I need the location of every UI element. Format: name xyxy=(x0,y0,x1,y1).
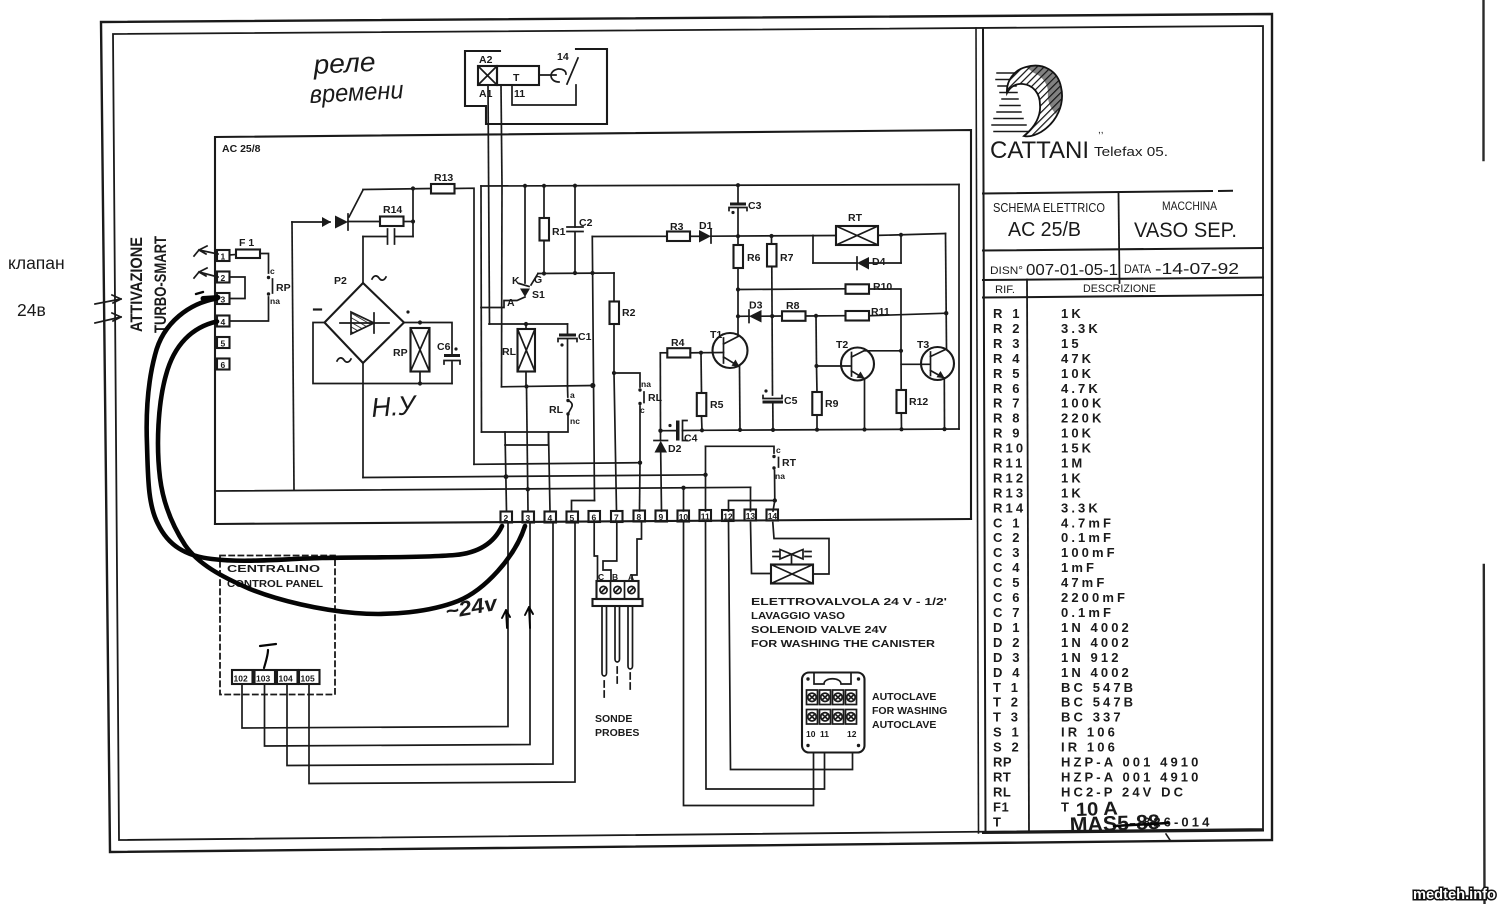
top rail of inner box xyxy=(481,185,959,187)
bridge inner diode axis xyxy=(340,322,389,324)
inner contour xyxy=(814,673,851,685)
pin 13 riser from line B xyxy=(750,487,752,511)
S1 triangle xyxy=(520,289,530,298)
thick blob at pin3 xyxy=(203,298,218,299)
scan edge line right xyxy=(1484,0,1485,904)
pin 3 xyxy=(523,512,535,523)
svg-text:8: 8 xyxy=(637,512,642,522)
T1 circle xyxy=(713,333,748,368)
T1 emitter slant xyxy=(724,357,740,367)
svg-text:3: 3 xyxy=(221,295,226,305)
C4 plate filled xyxy=(676,421,680,441)
contact 14 hook xyxy=(551,69,566,82)
svg-text:R13: R13 xyxy=(434,172,453,184)
pin 10 riser xyxy=(683,488,685,511)
contact RP bar xyxy=(272,279,274,293)
svg-text:11: 11 xyxy=(701,512,710,522)
svg-text:R5: R5 xyxy=(710,399,724,411)
pin 14 xyxy=(767,510,779,521)
D4 riser xyxy=(900,235,902,263)
svg-text:10K: 10K xyxy=(1061,426,1094,441)
svg-text:47mF: 47mF xyxy=(1061,575,1107,590)
svg-text:102: 102 xyxy=(234,674,248,684)
resistor R8 xyxy=(782,311,806,321)
svg-text:R 6: R 6 xyxy=(993,381,1023,396)
feed vertical down to line B xyxy=(292,222,294,490)
svg-text:c: c xyxy=(270,266,275,276)
node pin2 riser line A xyxy=(504,474,509,479)
svg-text:T 1: T 1 xyxy=(993,680,1021,695)
svg-text:104: 104 xyxy=(279,674,293,684)
contact RP dots xyxy=(267,276,270,279)
svg-text:AC 25/B: AC 25/B xyxy=(1008,219,1081,241)
bridge right vertex wire xyxy=(404,323,452,355)
tilde bottom left of bridge xyxy=(337,358,351,362)
svg-text:R12: R12 xyxy=(993,470,1026,485)
D1 cathode bar xyxy=(710,230,712,244)
svg-text:AUTOCLAVE: AUTOCLAVE xyxy=(872,691,936,703)
svg-text:C1: C1 xyxy=(578,331,592,343)
pin 4 xyxy=(545,512,557,523)
RP bottom wire xyxy=(419,372,421,384)
wire na to pin 4 xyxy=(230,297,269,321)
RP box xyxy=(411,328,430,372)
svg-text:105: 105 xyxy=(301,674,315,684)
R4 to T1 base xyxy=(690,352,701,354)
C1 bottom stub to line 386 xyxy=(567,339,569,387)
relay 11 vert continuation xyxy=(501,186,504,387)
svg-text:F 1: F 1 xyxy=(239,237,254,249)
divider under RIF/DESCRIZIONE xyxy=(983,295,1263,298)
mounting plate xyxy=(593,599,643,606)
T2 base bar xyxy=(851,353,853,377)
node RL top xyxy=(524,322,528,326)
T2 base wire xyxy=(817,365,852,367)
C6 bottom wire xyxy=(451,362,453,384)
svg-text:C 2: C 2 xyxy=(993,530,1023,545)
strike line xyxy=(1114,823,1168,826)
svg-text:D1: D1 xyxy=(699,220,713,232)
node T1 emitter rail xyxy=(738,428,742,432)
R5 bottom xyxy=(701,416,704,430)
T1 base bar xyxy=(723,338,725,363)
svg-text:DATA: DATA xyxy=(1124,262,1151,276)
S1 gate slant xyxy=(531,274,538,286)
wire c down to wire C xyxy=(639,406,641,463)
svg-text:S1: S1 xyxy=(532,289,545,301)
svg-text:0.1mF: 0.1mF xyxy=(1061,605,1114,620)
svg-text:HC2-P 24V DC: HC2-P 24V DC xyxy=(1061,784,1186,799)
C1 plates xyxy=(559,334,576,337)
RL coil drop xyxy=(525,324,527,329)
contact RL-a stub xyxy=(567,387,569,398)
wire K riser xyxy=(524,186,526,283)
resistor R12 xyxy=(897,390,907,413)
svg-text:R 5: R 5 xyxy=(993,366,1023,381)
line A from bridge xyxy=(363,475,706,478)
svg-text:RP: RP xyxy=(393,347,408,359)
C2 bottom stub xyxy=(574,232,576,273)
R7 vertical down to C5 xyxy=(771,267,774,396)
R2 corner from G line xyxy=(613,273,615,302)
svg-text:R 4: R 4 xyxy=(993,351,1023,366)
svg-text:1K: 1K xyxy=(1061,470,1084,485)
svg-text:SONDE: SONDE xyxy=(595,713,632,725)
svg-text:R14: R14 xyxy=(383,204,402,216)
R4 line left corner xyxy=(660,352,667,354)
svg-text:D2: D2 xyxy=(668,443,682,455)
svg-text:24в: 24в xyxy=(17,300,46,320)
svg-text:IR 106: IR 106 xyxy=(1061,725,1118,740)
node R10 line left xyxy=(736,287,740,291)
capacitor under R14 wire left xyxy=(363,236,387,238)
svg-text:D 2: D 2 xyxy=(993,635,1023,650)
screw crosses xyxy=(809,695,854,701)
node T2 base/R9 xyxy=(814,364,818,368)
svg-text:D 4: D 4 xyxy=(993,665,1023,680)
svg-text:12: 12 xyxy=(847,729,857,739)
terminal block CBA xyxy=(597,581,639,599)
svg-text:D4: D4 xyxy=(872,256,886,268)
wire 105 to pin5 xyxy=(309,523,575,784)
diode D4 xyxy=(857,257,869,270)
C2 stub from rail xyxy=(574,186,576,227)
svg-text:C 4: C 4 xyxy=(993,560,1023,575)
C5 bottom xyxy=(772,404,774,430)
svg-text:a: a xyxy=(570,390,575,400)
svg-text:R13: R13 xyxy=(993,485,1026,500)
vertical divider SCHEMA|MACCHINA and DISN|DATA xyxy=(1119,193,1120,283)
R2 bottom wire xyxy=(613,324,615,373)
C4 wire right seg xyxy=(683,429,703,431)
svg-text:S 2: S 2 xyxy=(993,740,1022,755)
svg-text:A1: A1 xyxy=(479,88,493,100)
node R7vert on D3 line xyxy=(770,314,774,318)
resistor R2 xyxy=(610,302,620,325)
node C2 top xyxy=(573,184,577,188)
thick curve pin4 loop to pin3 xyxy=(158,322,525,614)
RT box X xyxy=(836,226,878,245)
line B from box edge xyxy=(215,487,751,491)
svg-text:R14: R14 xyxy=(993,500,1026,515)
outer page frame xyxy=(101,14,1272,852)
svg-text:-14-07-92: -14-07-92 xyxy=(1155,261,1239,278)
contact 14 blade xyxy=(567,58,578,84)
T2 collector slant xyxy=(852,351,865,358)
RL coil bottom xyxy=(525,372,527,387)
R4 corner drop xyxy=(659,353,661,431)
wire pin12 xyxy=(729,523,853,770)
svg-text:C: C xyxy=(598,572,604,582)
node R9 rail xyxy=(815,428,819,432)
diode cathode bar xyxy=(347,214,349,230)
wire pin7 down to B xyxy=(603,523,617,582)
capacitor under R14 wire right xyxy=(395,236,413,238)
wire pin11 xyxy=(706,523,825,790)
node K top xyxy=(523,184,527,188)
svg-text:11: 11 xyxy=(820,729,829,739)
relay T box xyxy=(497,66,539,85)
diode D2 xyxy=(655,441,668,453)
svg-text:Telefax 05.: Telefax 05. xyxy=(1094,144,1168,159)
svg-text:FOR WASHING: FOR WASHING xyxy=(872,705,947,717)
R1 drop from rail xyxy=(543,186,545,218)
resistor R6 xyxy=(734,245,744,268)
divider under SCHEMA/MACCHINA xyxy=(983,248,1263,251)
diode D3 xyxy=(749,310,762,323)
plus dot C4 xyxy=(668,424,671,427)
probe 2 xyxy=(615,606,620,662)
pin 5 xyxy=(217,337,230,348)
arrow into frame upper xyxy=(95,295,121,304)
svg-text:K: K xyxy=(512,275,520,287)
D3 to R8 xyxy=(762,315,783,317)
node T2 emitter rail xyxy=(862,427,866,431)
svg-text:CATTANI: CATTANI xyxy=(990,137,1089,164)
pin 4 xyxy=(217,316,230,327)
fuse F1 xyxy=(236,250,260,259)
hand arrow at pin 2 xyxy=(194,268,218,278)
minus label xyxy=(314,308,321,310)
dashed box xyxy=(220,556,335,695)
RT left wire xyxy=(813,235,836,237)
node R14 right xyxy=(411,219,415,223)
D3 cathode bar xyxy=(748,310,750,323)
T3 emitter arrow xyxy=(937,371,945,378)
parts list xyxy=(993,306,1212,829)
svg-text:5: 5 xyxy=(570,513,575,523)
D1 to RT left corner xyxy=(711,235,813,238)
D2 down to pin 9 xyxy=(660,453,663,512)
table bottom line xyxy=(983,831,1263,834)
svg-text:7: 7 xyxy=(614,513,619,523)
svg-text:D3: D3 xyxy=(749,300,763,312)
R1 bottom to G line xyxy=(543,241,545,274)
resistor R13 xyxy=(431,184,455,194)
T2 emitter down xyxy=(864,379,866,430)
svg-text:6: 6 xyxy=(592,513,597,523)
long vertical R3corner to pin5/6 xyxy=(592,237,594,501)
svg-text:007-01-05-1: 007-01-05-1 xyxy=(1026,262,1118,279)
node RP bottom xyxy=(418,381,422,385)
pin 10 xyxy=(678,511,690,522)
wire 104 to pin4 xyxy=(287,523,553,766)
svg-text:R11: R11 xyxy=(993,456,1025,471)
resistor R11 xyxy=(846,311,870,321)
wire pin8 down to A xyxy=(632,522,642,582)
svg-text:R8: R8 xyxy=(786,300,800,312)
S1 anode wire to left edge xyxy=(481,297,525,308)
node RL bottom xyxy=(524,384,528,388)
line y=386 from relay11 drop xyxy=(502,386,593,387)
R2 node down to pin7 xyxy=(614,373,617,511)
node R5 top xyxy=(699,351,703,355)
nc staircase to left edge xyxy=(505,416,568,445)
divider under DISN/DATA xyxy=(983,278,1263,281)
R3 line left xyxy=(592,235,667,237)
R12 bottom xyxy=(900,413,902,429)
pin 4 riser from staircase xyxy=(549,432,551,511)
node R2 bottom xyxy=(612,371,616,375)
G line xyxy=(538,272,614,275)
relay coil X xyxy=(478,66,497,85)
wire C xyxy=(474,463,640,465)
svg-text:6: 6 xyxy=(221,360,226,370)
inner page frame xyxy=(113,26,1263,840)
svg-text:1K: 1K xyxy=(1061,485,1084,500)
svg-text:C4: C4 xyxy=(684,433,698,445)
RT/T3 vertical xyxy=(946,234,947,350)
svg-text:c: c xyxy=(776,445,781,455)
node na bridge xyxy=(773,498,777,502)
resistor R9 xyxy=(812,392,822,415)
pin 9 xyxy=(656,511,668,522)
svg-text:MACCHINA: MACCHINA xyxy=(1162,199,1217,213)
svg-text:15: 15 xyxy=(1061,336,1082,351)
svg-text:времени: времени xyxy=(309,76,404,109)
svg-text:AC 25/8: AC 25/8 xyxy=(222,143,261,155)
node C3 top xyxy=(736,183,740,187)
wire R13 to corner down xyxy=(455,188,475,464)
pin 2 xyxy=(501,512,513,523)
valve bowtie triangles xyxy=(780,550,803,560)
resistor R14 xyxy=(380,217,404,227)
svg-text:CENTRALINO: CENTRALINO xyxy=(227,563,320,575)
pin 8 xyxy=(634,511,646,522)
node R11 end xyxy=(944,311,948,315)
probe 3 xyxy=(628,606,633,669)
relay inner bottom wire 11 xyxy=(512,85,576,105)
D4 cathode bar xyxy=(856,257,858,270)
svg-text:HZP-A 001 4910: HZP-A 001 4910 xyxy=(1061,770,1201,785)
svg-text:клапан: клапан xyxy=(8,253,65,273)
svg-text:1N 912: 1N 912 xyxy=(1061,650,1122,665)
RT left vert xyxy=(812,236,814,263)
probe dashes xyxy=(604,667,630,697)
svg-text:T: T xyxy=(1061,799,1072,814)
line y=324 RL top feed xyxy=(489,323,568,325)
svg-text:100mF: 100mF xyxy=(1061,545,1118,560)
svg-text:12: 12 xyxy=(723,512,733,522)
D4 line left xyxy=(813,262,857,264)
svg-text:B: B xyxy=(612,572,618,582)
svg-text:R2: R2 xyxy=(622,307,636,319)
node R12 rail xyxy=(899,427,903,431)
svg-text:реле: реле xyxy=(312,47,377,80)
probe 1 xyxy=(602,606,607,676)
svg-text:DISN°: DISN° xyxy=(990,265,1023,277)
svg-text:C5: C5 xyxy=(784,395,798,407)
svg-text:1N 4002: 1N 4002 xyxy=(1061,620,1132,635)
svg-text:nc: nc xyxy=(570,416,580,426)
terminal 103 xyxy=(255,670,276,684)
wire pin11 riser top xyxy=(706,446,775,453)
resistor R10 xyxy=(846,284,870,294)
svg-text:IR 106: IR 106 xyxy=(1061,740,1118,755)
svg-text:RL: RL xyxy=(549,404,564,416)
branch to contact na xyxy=(614,373,640,387)
svg-text:R 9: R 9 xyxy=(993,426,1023,441)
svg-text:HZP-A 001 4910: HZP-A 001 4910 xyxy=(1061,755,1201,770)
plus dot C6 xyxy=(454,347,457,350)
slant from diode up to R13 line xyxy=(349,190,363,217)
wire pin1 to F1 xyxy=(230,254,237,257)
staircase horiz top xyxy=(482,431,549,433)
wire 103 to pin3 xyxy=(265,523,531,747)
svg-text:4.7mF: 4.7mF xyxy=(1061,515,1114,530)
vertical cap line to bridge top xyxy=(362,237,364,284)
pin 5 xyxy=(567,512,579,523)
svg-text:R9: R9 xyxy=(825,398,839,410)
svg-text:R10: R10 xyxy=(993,441,1026,456)
svg-text:T: T xyxy=(993,814,1004,829)
pin 3 xyxy=(217,293,230,304)
T3 base bar xyxy=(930,352,932,376)
resistor R3 xyxy=(667,232,690,242)
svg-text:2: 2 xyxy=(221,273,226,283)
svg-text:G: G xyxy=(534,274,542,286)
inner box right edge xyxy=(958,185,960,430)
C5 plates xyxy=(763,396,782,399)
arrow head on feed xyxy=(322,217,331,227)
svg-text:R12: R12 xyxy=(909,396,928,408)
svg-text:1K: 1K xyxy=(1061,306,1084,321)
handwritten overlays title block xyxy=(1069,799,1168,837)
svg-text:RT: RT xyxy=(782,457,797,469)
C3 plates xyxy=(730,203,746,206)
resistor R4 xyxy=(667,348,690,357)
R9 stub xyxy=(816,366,819,392)
RL coil box xyxy=(518,329,536,372)
valve bowtie bars xyxy=(773,552,811,557)
R10 line left seg xyxy=(738,288,846,291)
svg-text:A: A xyxy=(628,572,634,582)
divider under CATTANI xyxy=(983,191,1232,194)
T1 base wire xyxy=(690,352,723,354)
node R5 rail xyxy=(700,428,704,432)
svg-text:1: 1 xyxy=(221,252,226,262)
svg-text:~24v: ~24v xyxy=(444,592,501,624)
svg-text:T2: T2 xyxy=(836,339,848,351)
relay wire A1 down xyxy=(488,85,490,324)
bridge inner diode bar xyxy=(373,313,375,333)
contact blade S xyxy=(568,401,572,415)
wire pin14 loop xyxy=(773,523,829,575)
hand arrow at pin 1 xyxy=(194,246,218,256)
bottom rail xyxy=(702,429,959,430)
plus dot C5 xyxy=(764,389,767,392)
svg-text:T 3: T 3 xyxy=(993,710,1021,725)
node C2 G line xyxy=(573,271,577,275)
svg-text:LAVAGGIO VASO: LAVAGGIO VASO xyxy=(751,610,845,622)
svg-text:T 2: T 2 xyxy=(993,695,1021,710)
svg-text:ELETTROVALVOLA 24 V - 1/2': ELETTROVALVOLA 24 V - 1/2' xyxy=(751,596,947,608)
pin 1 xyxy=(217,250,230,261)
diode D1 xyxy=(699,230,711,243)
svg-text:A: A xyxy=(507,297,515,309)
resistor R7 xyxy=(767,244,777,267)
vertical node to R13 line xyxy=(412,188,414,237)
vertical divider RIF|DESCRIZIONE xyxy=(1027,280,1029,833)
wire c node to pin 8 xyxy=(639,463,642,511)
svg-text:100K: 100K xyxy=(1061,396,1104,411)
valve coil box xyxy=(771,565,813,584)
svg-text:1mF: 1mF xyxy=(1061,560,1097,575)
svg-text:R 7: R 7 xyxy=(993,396,1023,411)
D2 stub xyxy=(660,431,662,440)
svg-text:14: 14 xyxy=(557,51,569,63)
D3 line left seg xyxy=(738,315,749,317)
